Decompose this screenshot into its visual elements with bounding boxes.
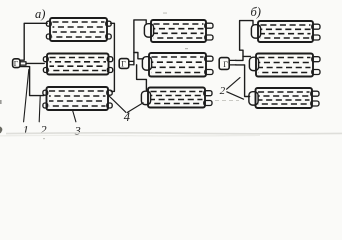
L1 left top stub — [46, 21, 51, 26]
svg-text:Г: Г — [14, 59, 19, 68]
M2 dash row 1 — [152, 56, 204, 58]
R2 left connector loop — [249, 57, 258, 70]
M1 right top stub — [205, 23, 213, 28]
leader line from label 2 to upper pipe — [227, 78, 240, 90]
M2 right bottom stub — [205, 70, 213, 75]
wire G1 to panel L3 (down pipe) — [20, 67, 44, 96]
R2 dash row 1 — [259, 57, 311, 59]
R2 dash row 3 — [259, 67, 311, 69]
L3 dash row 4 — [49, 105, 106, 107]
L1 dash row 3 — [53, 31, 105, 33]
L3 dash row 1 — [49, 90, 106, 92]
L2 dash row 2 — [50, 61, 107, 63]
L1 dash row 2 — [53, 26, 105, 28]
M1 dash row 1 — [154, 23, 204, 25]
wire G3 up riser to R1 — [236, 21, 254, 61]
faint scan dashes right of M3 — [215, 100, 239, 102]
L1 right bottom stub — [106, 34, 111, 39]
M3 dash row 2 — [151, 95, 203, 97]
L3 left top stub — [43, 90, 48, 95]
R1 dash row 3 — [261, 33, 311, 35]
leader line 4 right branch — [127, 103, 143, 113]
leader line to label 1 — [24, 70, 29, 122]
M2 dash row 2 — [152, 61, 204, 63]
R3 right bottom stub — [311, 101, 319, 106]
L3 right top stub — [107, 90, 112, 95]
wire G2 up riser to M1 — [134, 20, 146, 65]
generator box G3 — [219, 58, 229, 70]
M2 right top stub — [205, 56, 213, 61]
M2 dash row 4 — [152, 72, 204, 74]
faint speck bottom middle — [43, 138, 45, 139]
wire G2 right nubs — [129, 61, 134, 64]
L2 panel body — [47, 54, 109, 75]
L3 dash row 2 — [49, 95, 106, 97]
faint speck near M1 — [163, 13, 167, 14]
R1 dash row 2 — [261, 28, 311, 30]
L1 dash row 1 — [53, 21, 105, 23]
M1 right bottom stub — [205, 35, 213, 40]
svg-text:Г: Г — [223, 60, 228, 69]
svg-text:2: 2 — [41, 123, 47, 137]
L2 left top stub — [43, 57, 48, 62]
R1 right bottom stub — [312, 35, 320, 40]
leader line from label 2 to lower pipe — [227, 92, 244, 99]
wire G1 to panel L2 — [26, 62, 44, 64]
generator box G2 — [119, 59, 129, 69]
wire G3 branch to R2 — [243, 55, 250, 57]
R2 right top stub — [312, 57, 320, 62]
L2 left bottom stub — [43, 68, 48, 73]
L2 dash row 3 — [50, 65, 107, 67]
M3 dash row 4 — [151, 103, 203, 105]
R1 dash row 4 — [261, 37, 311, 39]
L2 right bottom stub — [107, 68, 112, 73]
wire G2 branch to M2 — [134, 53, 144, 59]
L2 right top stub — [107, 57, 112, 62]
L2 dash row 4 — [50, 70, 107, 72]
wire G3 down pipe to R3 — [236, 65, 250, 97]
R1 dash row 1 — [261, 24, 311, 26]
generator box G1 — [13, 59, 20, 68]
svg-text:2: 2 — [220, 85, 226, 97]
M1 panel body — [151, 20, 206, 42]
wire G1 right nubs — [20, 62, 26, 65]
M1 dash row 2 — [154, 28, 204, 30]
R1 panel body — [258, 21, 313, 42]
return riser of scheme a — [111, 23, 115, 91]
M2 panel body — [149, 53, 206, 77]
R3 right top stub — [311, 91, 319, 96]
M2 left connector loop — [142, 57, 151, 70]
M3 right top stub — [204, 91, 212, 96]
L1 dash row 4 — [53, 36, 105, 38]
R2 dash row 4 — [259, 72, 311, 74]
L3 dash row 3 — [49, 100, 106, 102]
svg-text:б): б) — [251, 5, 261, 19]
R1 left connector loop — [251, 25, 260, 38]
M3 dash row 1 — [151, 91, 203, 93]
R3 left connector loop — [249, 92, 258, 105]
faint speck above M2 — [185, 48, 188, 49]
M2 dash row 3 — [152, 66, 204, 68]
R3 panel body — [256, 88, 313, 108]
M3 dash row 3 — [151, 99, 203, 101]
scan fold line along bottom — [6, 132, 342, 135]
R3 dash row 3 — [258, 99, 310, 101]
leader line 4 left branch — [108, 95, 126, 113]
L1 right top stub — [106, 21, 111, 26]
M3 panel body — [148, 88, 205, 108]
L2 dash row 1 — [50, 57, 107, 59]
L3 left bottom stub — [43, 103, 48, 108]
R3 dash row 1 — [258, 91, 310, 93]
R3 dash row 4 — [258, 103, 310, 105]
R1 right top stub — [312, 24, 320, 29]
R2 dash row 2 — [259, 62, 311, 64]
M3 left connector loop — [141, 91, 150, 104]
R2 right bottom stub — [312, 70, 320, 75]
wire G3 right nubs — [229, 60, 236, 65]
leader line to label 3 — [73, 110, 76, 121]
L1 left bottom stub — [46, 34, 51, 39]
M1 left connector loop — [144, 24, 153, 37]
svg-text:4: 4 — [124, 110, 130, 124]
M1 dash row 4 — [154, 37, 204, 39]
R3 dash row 2 — [258, 95, 310, 97]
L1 panel body — [50, 18, 107, 41]
svg-text:1: 1 — [23, 123, 29, 137]
wire G1 to panel L1 (up riser) — [20, 23, 47, 60]
scan blob bottom-left corner — [0, 127, 2, 134]
leader line to label 2 — [39, 96, 40, 121]
svg-text:Г: Г — [121, 60, 126, 69]
M1 dash row 3 — [154, 32, 204, 34]
R2 panel body — [256, 54, 313, 77]
svg-text:а): а) — [35, 7, 45, 21]
L3 right bottom stub — [107, 103, 112, 108]
L3 panel body — [47, 87, 109, 110]
M3 right bottom stub — [204, 101, 212, 106]
paper background — [0, 0, 342, 141]
scan speck left edge — [0, 100, 2, 104]
scan fold line lighter part — [0, 134, 260, 137]
wire G2 down pipe to M3 — [137, 65, 147, 90]
